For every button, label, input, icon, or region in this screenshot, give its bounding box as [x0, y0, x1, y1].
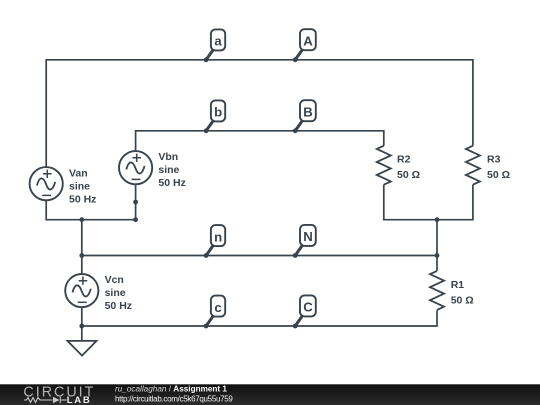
svg-text:n: n: [214, 229, 222, 244]
svg-text:50 Hz: 50 Hz: [105, 300, 132, 312]
svg-text:b: b: [214, 105, 222, 120]
svg-text:50 Ω: 50 Ω: [451, 294, 474, 306]
svg-text:http://circuitlab.com/c5k67qu5: http://circuitlab.com/c5k67qu55u759: [115, 395, 233, 404]
svg-text:LAB: LAB: [67, 395, 92, 405]
svg-text:50 Ω: 50 Ω: [487, 169, 510, 181]
svg-text:R3: R3: [487, 154, 501, 166]
svg-text:sine: sine: [69, 180, 90, 192]
svg-text:Vcn: Vcn: [105, 274, 124, 286]
svg-text:Van: Van: [69, 167, 88, 179]
svg-text:R2: R2: [397, 154, 411, 166]
svg-text:50 Hz: 50 Hz: [69, 193, 96, 205]
svg-text:B: B: [303, 105, 313, 120]
svg-text:N: N: [303, 229, 313, 244]
svg-text:Vbn: Vbn: [158, 151, 178, 163]
svg-text:a: a: [214, 34, 222, 49]
svg-text:ru_ocallaghan / Assignment 1: ru_ocallaghan / Assignment 1: [115, 384, 227, 393]
svg-text:sine: sine: [158, 164, 179, 176]
svg-text:50 Ω: 50 Ω: [397, 169, 420, 181]
svg-text:c: c: [214, 300, 221, 315]
svg-text:sine: sine: [105, 287, 126, 299]
svg-text:A: A: [303, 34, 313, 49]
svg-text:C: C: [303, 300, 313, 315]
svg-text:50 Hz: 50 Hz: [158, 177, 185, 189]
svg-text:R1: R1: [451, 279, 465, 291]
